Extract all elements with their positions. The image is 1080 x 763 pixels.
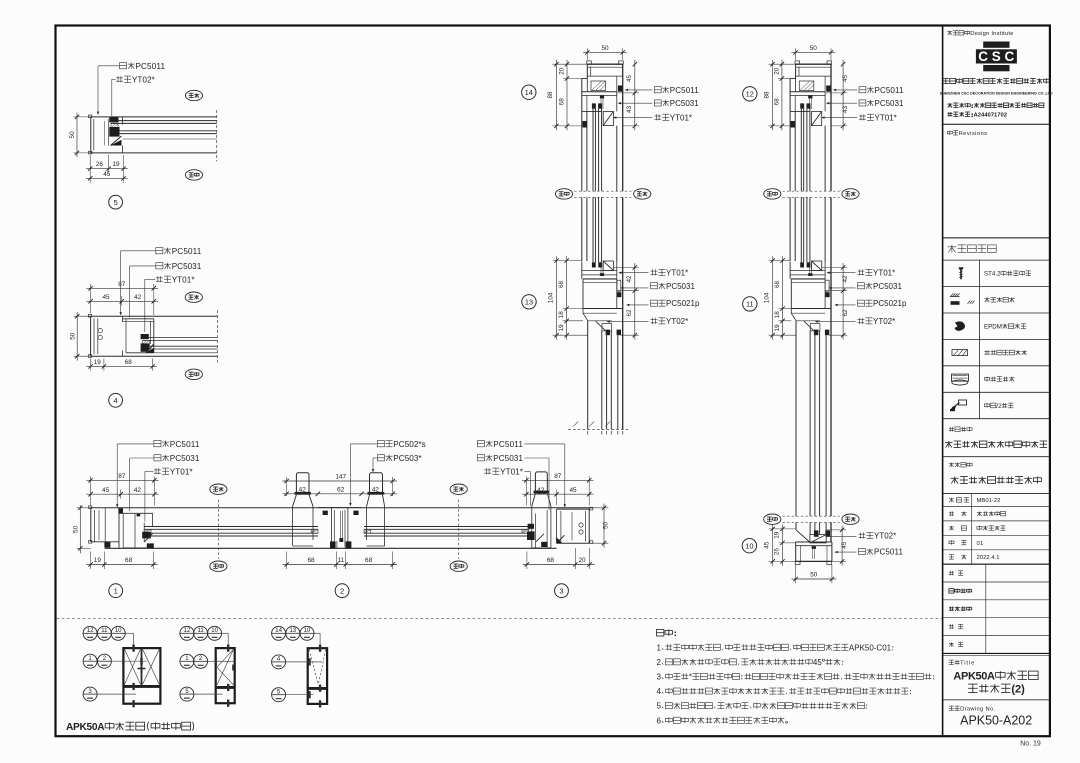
upper glass run segment 2 (581, 197, 583, 261)
svg-text:68: 68 (365, 557, 373, 564)
oval 室内 (strip left) (210, 484, 227, 494)
svg-text:PC5011: PC5011 (670, 86, 699, 95)
upper glass run segment 2 (789, 197, 791, 261)
detail 13 lower bead YT02 (596, 321, 606, 330)
det 11 dims 68/18/19/104 left (769, 260, 790, 262)
oval 室内 (det4) (185, 292, 202, 302)
label 压条YT02* (det5) (117, 76, 119, 82)
svg-text:68: 68 (547, 557, 555, 564)
detail 10 sill frame PC5011 (796, 541, 832, 543)
detail 10 sill glass bottom gaskets (814, 530, 819, 536)
svg-text:13: 13 (525, 298, 533, 307)
det4 gasket blobs (141, 334, 149, 339)
det 13 dims 68/18/19/104 left (553, 260, 582, 262)
svg-text:42: 42 (537, 487, 545, 494)
label 压条YT01* (det4) (157, 276, 159, 282)
svg-text:YT02*: YT02* (666, 317, 688, 326)
svg-text:43: 43 (626, 105, 633, 113)
svg-text:PC5021p: PC5021p (873, 299, 907, 308)
section circle 14 (522, 85, 536, 99)
det4 frame screw circles (98, 328, 102, 332)
det4 sash profile PC5031 (123, 318, 154, 320)
client section (949, 463, 954, 465)
detail 2 dims 42/62/42 (282, 493, 397, 495)
det 13 dims 42/62 right (613, 267, 638, 269)
oval 室内 (strip right) (450, 484, 467, 494)
svg-text:3: 3 (559, 586, 563, 595)
svg-text:PC5011: PC5011 (875, 86, 904, 95)
title block: design institute header (947, 31, 952, 33)
svg-text:/2: /2 (996, 403, 1002, 410)
svg-text:CSC: CSC (978, 49, 1014, 64)
svg-text:(2): (2) (1011, 684, 1025, 696)
detail 12 head frame profile PC5011 (795, 61, 800, 64)
svg-text:45: 45 (102, 487, 110, 494)
svg-text:*: * (689, 673, 692, 682)
svg-text:87: 87 (118, 281, 126, 288)
det 12 glass top edge gaskets (800, 103, 804, 108)
window 1 section cut marks (132, 645, 134, 652)
divider under header (943, 123, 1050, 125)
strip glass span B (364, 526, 530, 528)
svg-text:5: 5 (113, 198, 117, 207)
svg-text:YT02*: YT02* (874, 532, 896, 541)
svg-text:42: 42 (842, 275, 849, 283)
detail 11 transom lower step (791, 312, 825, 314)
svg-text:20: 20 (578, 557, 586, 564)
detail 3 dim 50 right (589, 507, 608, 509)
det 12 sash top rail PC5031 (824, 92, 826, 112)
detail 13 transom lower step (583, 312, 617, 314)
svg-text:42: 42 (372, 486, 380, 493)
detail 1 dims 19/68 bottom (90, 552, 92, 570)
svg-text:19: 19 (112, 161, 120, 168)
det4 frame profile PC5011 (91, 315, 218, 317)
window 3 markers 14/13/10 (272, 626, 286, 640)
svg-text:42: 42 (299, 486, 307, 493)
svg-text:11: 11 (746, 300, 754, 309)
legend section top border (943, 237, 1050, 239)
svg-text:ST4.2: ST4.2 (984, 271, 1001, 278)
svg-text:50: 50 (69, 131, 76, 139)
svg-text:PC5031: PC5031 (170, 454, 200, 463)
drawing number section (949, 705, 954, 707)
det 12 dim 50 top (795, 48, 797, 60)
svg-text:PC5011: PC5011 (874, 548, 903, 557)
detail 1 dim 87 (90, 476, 92, 505)
window 2 markers 1/2 (180, 654, 194, 668)
section circle 10 (742, 539, 756, 553)
section circle 4 (109, 393, 123, 407)
det4 glazing bead YT01 wedge (146, 344, 154, 353)
detail 3 bead diagonal (536, 534, 544, 542)
legend row 4: 玻璃支承垫胶块 (985, 350, 987, 355)
section circle 2 (335, 584, 349, 598)
det2 gasket blobs (323, 511, 328, 515)
window 1 markers 12/11/10 (83, 626, 97, 640)
detail 1 frame PC5011 (90, 508, 92, 542)
svg-text:14: 14 (525, 88, 533, 97)
det4 glass unit (143, 337, 218, 339)
svg-text:No. 19: No. 19 (1020, 741, 1041, 748)
legend icon/label divider (979, 260, 981, 419)
svg-text:87: 87 (118, 473, 126, 480)
detail 1 bead diagonal (144, 534, 152, 543)
svg-text:PC502*s: PC502*s (393, 440, 425, 449)
svg-text:19: 19 (558, 324, 565, 332)
svg-text:1: 1 (657, 643, 662, 652)
svg-text:50: 50 (603, 522, 610, 530)
label 窗框PC5011 (det3) (477, 441, 484, 447)
oval 室内 (det5) (185, 90, 202, 100)
svg-text:4: 4 (657, 687, 662, 696)
window 1 markers 1/2 (83, 654, 97, 668)
svg-text:Title: Title (960, 661, 974, 667)
svg-text:11: 11 (101, 628, 108, 634)
det 12 dims 45/43 right (825, 92, 847, 94)
company name CN (943, 77, 949, 79)
legend icon handle/2-point lock (959, 400, 967, 405)
svg-text:50: 50 (69, 332, 76, 340)
label 中梃PC502*s (det2) (377, 441, 384, 447)
svg-text:26: 26 (774, 548, 781, 556)
oval 室外 (det4) (185, 369, 202, 379)
svg-text:42: 42 (134, 487, 142, 494)
legend icon weather sealant (951, 293, 954, 296)
svg-text:PC5031: PC5031 (493, 454, 523, 463)
det5 break line dashed (216, 110, 218, 162)
revisions row (947, 131, 952, 133)
svg-text:YT02*: YT02* (132, 75, 156, 84)
break 1 dashed lines and ovals (783, 190, 840, 192)
label 窗扇PC5031 (det4) (156, 263, 163, 269)
label 窗框PC5011 (det4) (156, 248, 163, 254)
detail 11 lower bead YT02 (804, 321, 814, 330)
det 14 EPDM gasket (618, 86, 623, 92)
legend icon stainless hinge (952, 374, 969, 381)
upper glass run segment 1 (789, 79, 791, 192)
det2 mullion box (318, 507, 362, 509)
detail 13 transom box PC5021 (583, 278, 617, 280)
svg-text:62: 62 (626, 309, 633, 317)
det 14 glass top edge gaskets (592, 103, 596, 108)
detail 3 dims 42/45 (556, 490, 558, 506)
detail 2 dims 68/11/68 bottom (286, 552, 288, 570)
svg-text:APK50A: APK50A (953, 671, 995, 683)
det5 glazing bead YT02 wedge (111, 136, 122, 146)
det5 dim 45 (86, 177, 128, 179)
window 3 marker 4 (272, 655, 286, 669)
svg-text:68: 68 (307, 557, 315, 564)
svg-text:50: 50 (73, 525, 80, 533)
svg-text:5: 5 (657, 702, 662, 711)
detail 3 sash body PC5031 (531, 506, 533, 548)
legend icon EPDM gasket (955, 322, 965, 331)
det5 dims 26/19 (89, 155, 91, 183)
svg-text:88: 88 (547, 91, 554, 99)
detail 13 upper sash bottom rail (603, 261, 613, 270)
window 2 opening symbol (217, 649, 234, 667)
signature rows (943, 563, 1050, 565)
detail 1 frame bottom wedge (104, 542, 110, 548)
svg-text:45: 45 (102, 294, 110, 301)
det 14 labels (654, 87, 661, 93)
det 10 dim 50 bottom (795, 565, 797, 583)
middle column glass end dashed (568, 429, 628, 431)
window 1 handle cross (141, 664, 143, 674)
detail 3 frame bead wedge (557, 535, 565, 543)
section circle 12 (743, 87, 757, 101)
svg-text:PC5031: PC5031 (875, 99, 904, 108)
svg-text:50: 50 (810, 45, 818, 52)
svg-text:SHENZHEN CSC DECORATION DESIGN: SHENZHEN CSC DECORATION DESIGN ENGINEERI… (940, 92, 1053, 96)
detail 3 frame box PC5011 (557, 508, 590, 510)
window 3 dashed fixed symbol (309, 650, 318, 685)
drawing title section (943, 652, 1050, 654)
svg-text:42: 42 (626, 275, 633, 283)
det2 center screw (339, 511, 341, 541)
svg-text:11: 11 (338, 557, 345, 564)
det 12 sealant hatch (799, 81, 814, 91)
det5 glass unit (111, 120, 217, 122)
svg-text:19: 19 (94, 359, 102, 366)
svg-text:3: 3 (657, 673, 662, 682)
label 窗框PC5011 (det1) (154, 441, 161, 447)
svg-text:APK50-A202: APK50-A202 (960, 714, 1032, 728)
label 窗框PC5011 (det5) (120, 63, 127, 69)
det 12 EPDM gasket (826, 86, 831, 92)
project name section (949, 427, 951, 432)
det4 dims 45/42 (121, 296, 123, 306)
det 14 sash top rail PC5031 (616, 92, 618, 112)
svg-text:68: 68 (125, 359, 133, 366)
det 10 labels (860, 532, 862, 538)
oval 室外 (strip left) (210, 561, 227, 571)
svg-text:YT02*: YT02* (873, 317, 895, 326)
svg-text:104: 104 (764, 292, 771, 303)
svg-text:68: 68 (774, 281, 781, 289)
break 1 dashed lines and ovals (574, 190, 631, 192)
label 窗扇PC5031 (det1) (154, 455, 161, 461)
svg-text:Design Institute: Design Institute (970, 31, 1013, 37)
section circle 5 (109, 195, 123, 209)
label 压条YT01* (det3) (485, 468, 487, 474)
detail 14 head frame profile PC5011 (587, 61, 592, 64)
svg-text:88: 88 (763, 91, 770, 99)
dashed separator above bottom strip (57, 618, 942, 620)
det 12 dims 20/68/88 left (769, 63, 796, 65)
svg-text:43: 43 (842, 105, 849, 113)
det2 left sash cover tab (296, 473, 309, 494)
svg-text:1: 1 (114, 586, 118, 595)
section circle 13 (522, 295, 536, 309)
det5 dim 50 left (74, 116, 91, 118)
window 1 opening diagonals (125, 649, 141, 684)
strip glass span A (144, 526, 318, 528)
svg-text:18: 18 (774, 311, 781, 319)
legend icon screw ST4.2 (958, 267, 963, 270)
svg-text:PC5031: PC5031 (873, 282, 902, 291)
svg-text:45: 45 (842, 75, 849, 83)
window 3 marker 5 (272, 688, 286, 702)
svg-text:68: 68 (558, 281, 565, 289)
det2 right sash cover tab (370, 473, 383, 494)
label 压条YT01* (det1) (155, 468, 157, 474)
det4 dims 19/68 bottom (90, 359, 92, 371)
det 12 labels (859, 87, 866, 93)
legend row 2: 耐候密封胶 (984, 298, 989, 300)
svg-text:12: 12 (746, 90, 754, 99)
svg-text:87: 87 (554, 473, 562, 480)
svg-text:PC5011: PC5011 (172, 247, 202, 256)
svg-text:45: 45 (841, 541, 848, 549)
svg-text:01: 01 (977, 541, 984, 547)
svg-text:APK50A: APK50A (66, 722, 105, 733)
middle column lower glass to dashed end (587, 321, 589, 430)
svg-text:PC5011: PC5011 (135, 62, 165, 71)
window 2 section cut marks (227, 645, 229, 652)
svg-text:YT01*: YT01* (170, 467, 194, 476)
svg-text:14: 14 (275, 628, 282, 634)
window 1 marker 3 (83, 687, 97, 701)
window 2 handle (232, 665, 234, 671)
detail 3 dims 68/20 bottom (526, 552, 528, 570)
svg-text:68: 68 (773, 98, 780, 106)
svg-text:19: 19 (774, 324, 781, 332)
detail 11 upper sash bottom rail (812, 261, 822, 270)
detail 1 gasket blobs (118, 508, 123, 513)
svg-text:20: 20 (558, 67, 565, 75)
det5 gasket blobs (109, 117, 118, 122)
det5 frame profile PC5011 (91, 116, 217, 118)
det 14 sealant hatch (591, 81, 606, 91)
det 13 labels (652, 269, 654, 275)
svg-text:YT01*: YT01* (875, 113, 897, 122)
svg-text:YT01*: YT01* (873, 268, 895, 277)
det2 drainage gap verticals (336, 541, 338, 549)
window 2 markers 12/11/10 (180, 626, 194, 640)
legend icon glass setting block (952, 350, 968, 356)
svg-text:YT01*: YT01* (670, 113, 692, 122)
det4 dim 87 top (90, 284, 92, 313)
label 窗扇PC5031 (det3) (477, 455, 484, 461)
oval 室外 (strip right) (450, 561, 467, 571)
svg-text:MB01-22: MB01-22 (977, 498, 1001, 504)
section circle 11 (743, 297, 757, 311)
svg-text:20: 20 (773, 67, 780, 75)
right column lower glass segment 1 (795, 321, 797, 516)
svg-text:Drawing No.: Drawing No. (960, 707, 995, 713)
svg-text:APK50-C01: APK50-C01 (849, 643, 892, 652)
svg-text:45: 45 (813, 658, 822, 667)
svg-text:50: 50 (601, 45, 609, 52)
strip break dashed left (217, 500, 219, 559)
det4 dim 50 left (74, 315, 91, 317)
det 14 dim 50 top (586, 48, 588, 60)
legend row 5: 不锈钢合页 (984, 378, 989, 381)
notes block 说明 (657, 630, 664, 637)
svg-text:PC503*: PC503* (393, 454, 422, 463)
svg-text:2: 2 (340, 586, 344, 595)
det 10 dim 45 right (826, 529, 846, 531)
window 2 marker 5 (180, 687, 194, 701)
elevation window 3 (fixed with dashed symbol over fixed) (308, 648, 327, 704)
svg-text:YT01*: YT01* (666, 268, 688, 277)
svg-text:68: 68 (125, 557, 133, 564)
svg-text:4: 4 (113, 396, 117, 405)
svg-text:19: 19 (94, 557, 102, 564)
svg-text:Revisions: Revisions (959, 131, 987, 137)
svg-text:62: 62 (337, 486, 345, 493)
svg-text:12: 12 (87, 628, 94, 634)
detail 3 sash cover tab (535, 472, 547, 494)
det 11 labels (859, 269, 861, 275)
det 12 screw ST4.2 (808, 96, 810, 109)
qualification lines (947, 103, 952, 105)
svg-text:2022.4.1: 2022.4.1 (977, 555, 1000, 561)
elevation window 1 (two-leaf casement over fixed) (123, 648, 160, 704)
det 10 dims 19/26/45 left (769, 528, 796, 530)
svg-text:10: 10 (745, 541, 753, 550)
svg-text:26: 26 (96, 161, 104, 168)
svg-text:A244071702: A244071702 (974, 113, 1008, 119)
svg-text:PC5031: PC5031 (172, 262, 202, 271)
legend title 平开窗图例 (948, 246, 957, 248)
oval 室外 (det5) (185, 170, 202, 180)
label 窗扇PC503* (det2) (377, 455, 384, 461)
svg-text:12: 12 (184, 628, 191, 634)
svg-text:6: 6 (657, 716, 662, 725)
svg-text:EPDM: EPDM (984, 324, 1002, 331)
detail 3 gasket blobs (528, 524, 534, 529)
svg-text:10: 10 (211, 628, 218, 634)
svg-text:11: 11 (197, 628, 204, 634)
detail 11 transom box PC5021 (791, 278, 825, 280)
det 14 glazing bead YT01 (603, 111, 613, 125)
svg-text:PC5011: PC5011 (493, 440, 523, 449)
svg-text:42: 42 (134, 294, 142, 301)
info table rows (943, 506, 1050, 508)
detail 1 dim 50 left (77, 507, 91, 509)
section circle 3 (555, 584, 569, 598)
strip break dashed right (458, 500, 460, 559)
svg-text:18: 18 (558, 311, 565, 319)
svg-text:10: 10 (304, 628, 311, 634)
CSC logo (983, 42, 1009, 48)
svg-text:PC5021p: PC5021p (666, 299, 700, 308)
det 14 dims 20/68/88 left (552, 63, 587, 65)
strip top face line (91, 507, 591, 509)
legend row 6: 执手/2点锁 (984, 404, 989, 407)
det 11 dims 42/62 right (822, 267, 847, 269)
detail 2 dim 147 (286, 477, 288, 496)
svg-text:45: 45 (103, 171, 111, 178)
elevation window 2 (single casement over fixed) (216, 648, 235, 703)
svg-text:62: 62 (842, 309, 849, 317)
right column lower glass segment 2 (795, 522, 797, 530)
det 14 dims 45/43 right (617, 92, 639, 94)
strip glass spacers (144, 529, 151, 533)
svg-text:147: 147 (335, 474, 346, 481)
detail 1 dims 45/42 (120, 490, 122, 499)
break 2 dashed lines and ovals (783, 515, 840, 517)
det4 break line dashed (217, 310, 219, 363)
svg-text:13: 13 (289, 628, 296, 634)
strip bottom face line (105, 547, 557, 549)
svg-text:10: 10 (115, 628, 122, 634)
title block left border (942, 26, 944, 737)
svg-text:45: 45 (569, 487, 577, 494)
